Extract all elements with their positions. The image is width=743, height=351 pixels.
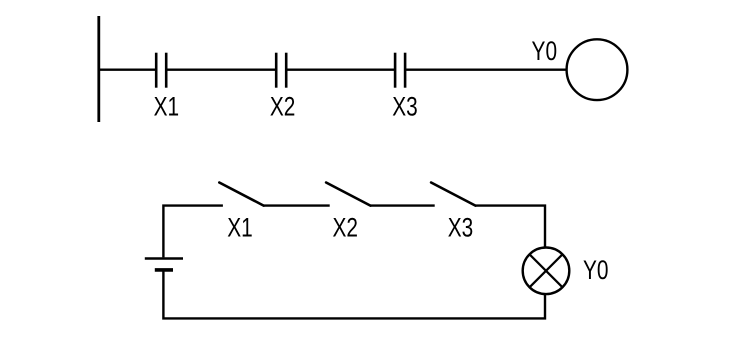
svg-text:Y0: Y0 [532,36,558,66]
svg-text:X1: X1 [227,212,253,242]
wire battery to switch X1 [163,206,223,258]
lamp Y0 [523,247,570,294]
left power rail [97,16,100,122]
switch X2 blade [326,183,370,206]
svg-text:X3: X3 [392,92,418,122]
battery negative plate [155,268,173,272]
svg-text:X2: X2 [332,212,358,242]
switch X3 blade [431,183,475,206]
wire rail to contact X1 [99,68,155,70]
contact X2 (normally open) [276,53,286,88]
wire X1 to X2 [167,68,275,70]
svg-text:X2: X2 [270,92,296,122]
contact X3 (normally open) [395,53,405,88]
svg-text:X1: X1 [154,92,180,122]
wire X2 to X3 (circuit) [370,204,434,206]
switch X1 blade [219,183,263,206]
svg-text:X3: X3 [448,212,474,242]
battery positive plate [145,257,183,260]
svg-text:Y0: Y0 [583,255,609,285]
wire X3 to lamp [475,206,545,248]
wire lamp to bottom return [163,270,545,319]
contact X1 (normally open) [156,53,166,88]
output coil Y0 [567,39,628,100]
wire X2 to X3 [287,68,394,70]
wire X1 to X2 (circuit) [264,204,330,206]
wire X3 to coil [406,68,566,70]
